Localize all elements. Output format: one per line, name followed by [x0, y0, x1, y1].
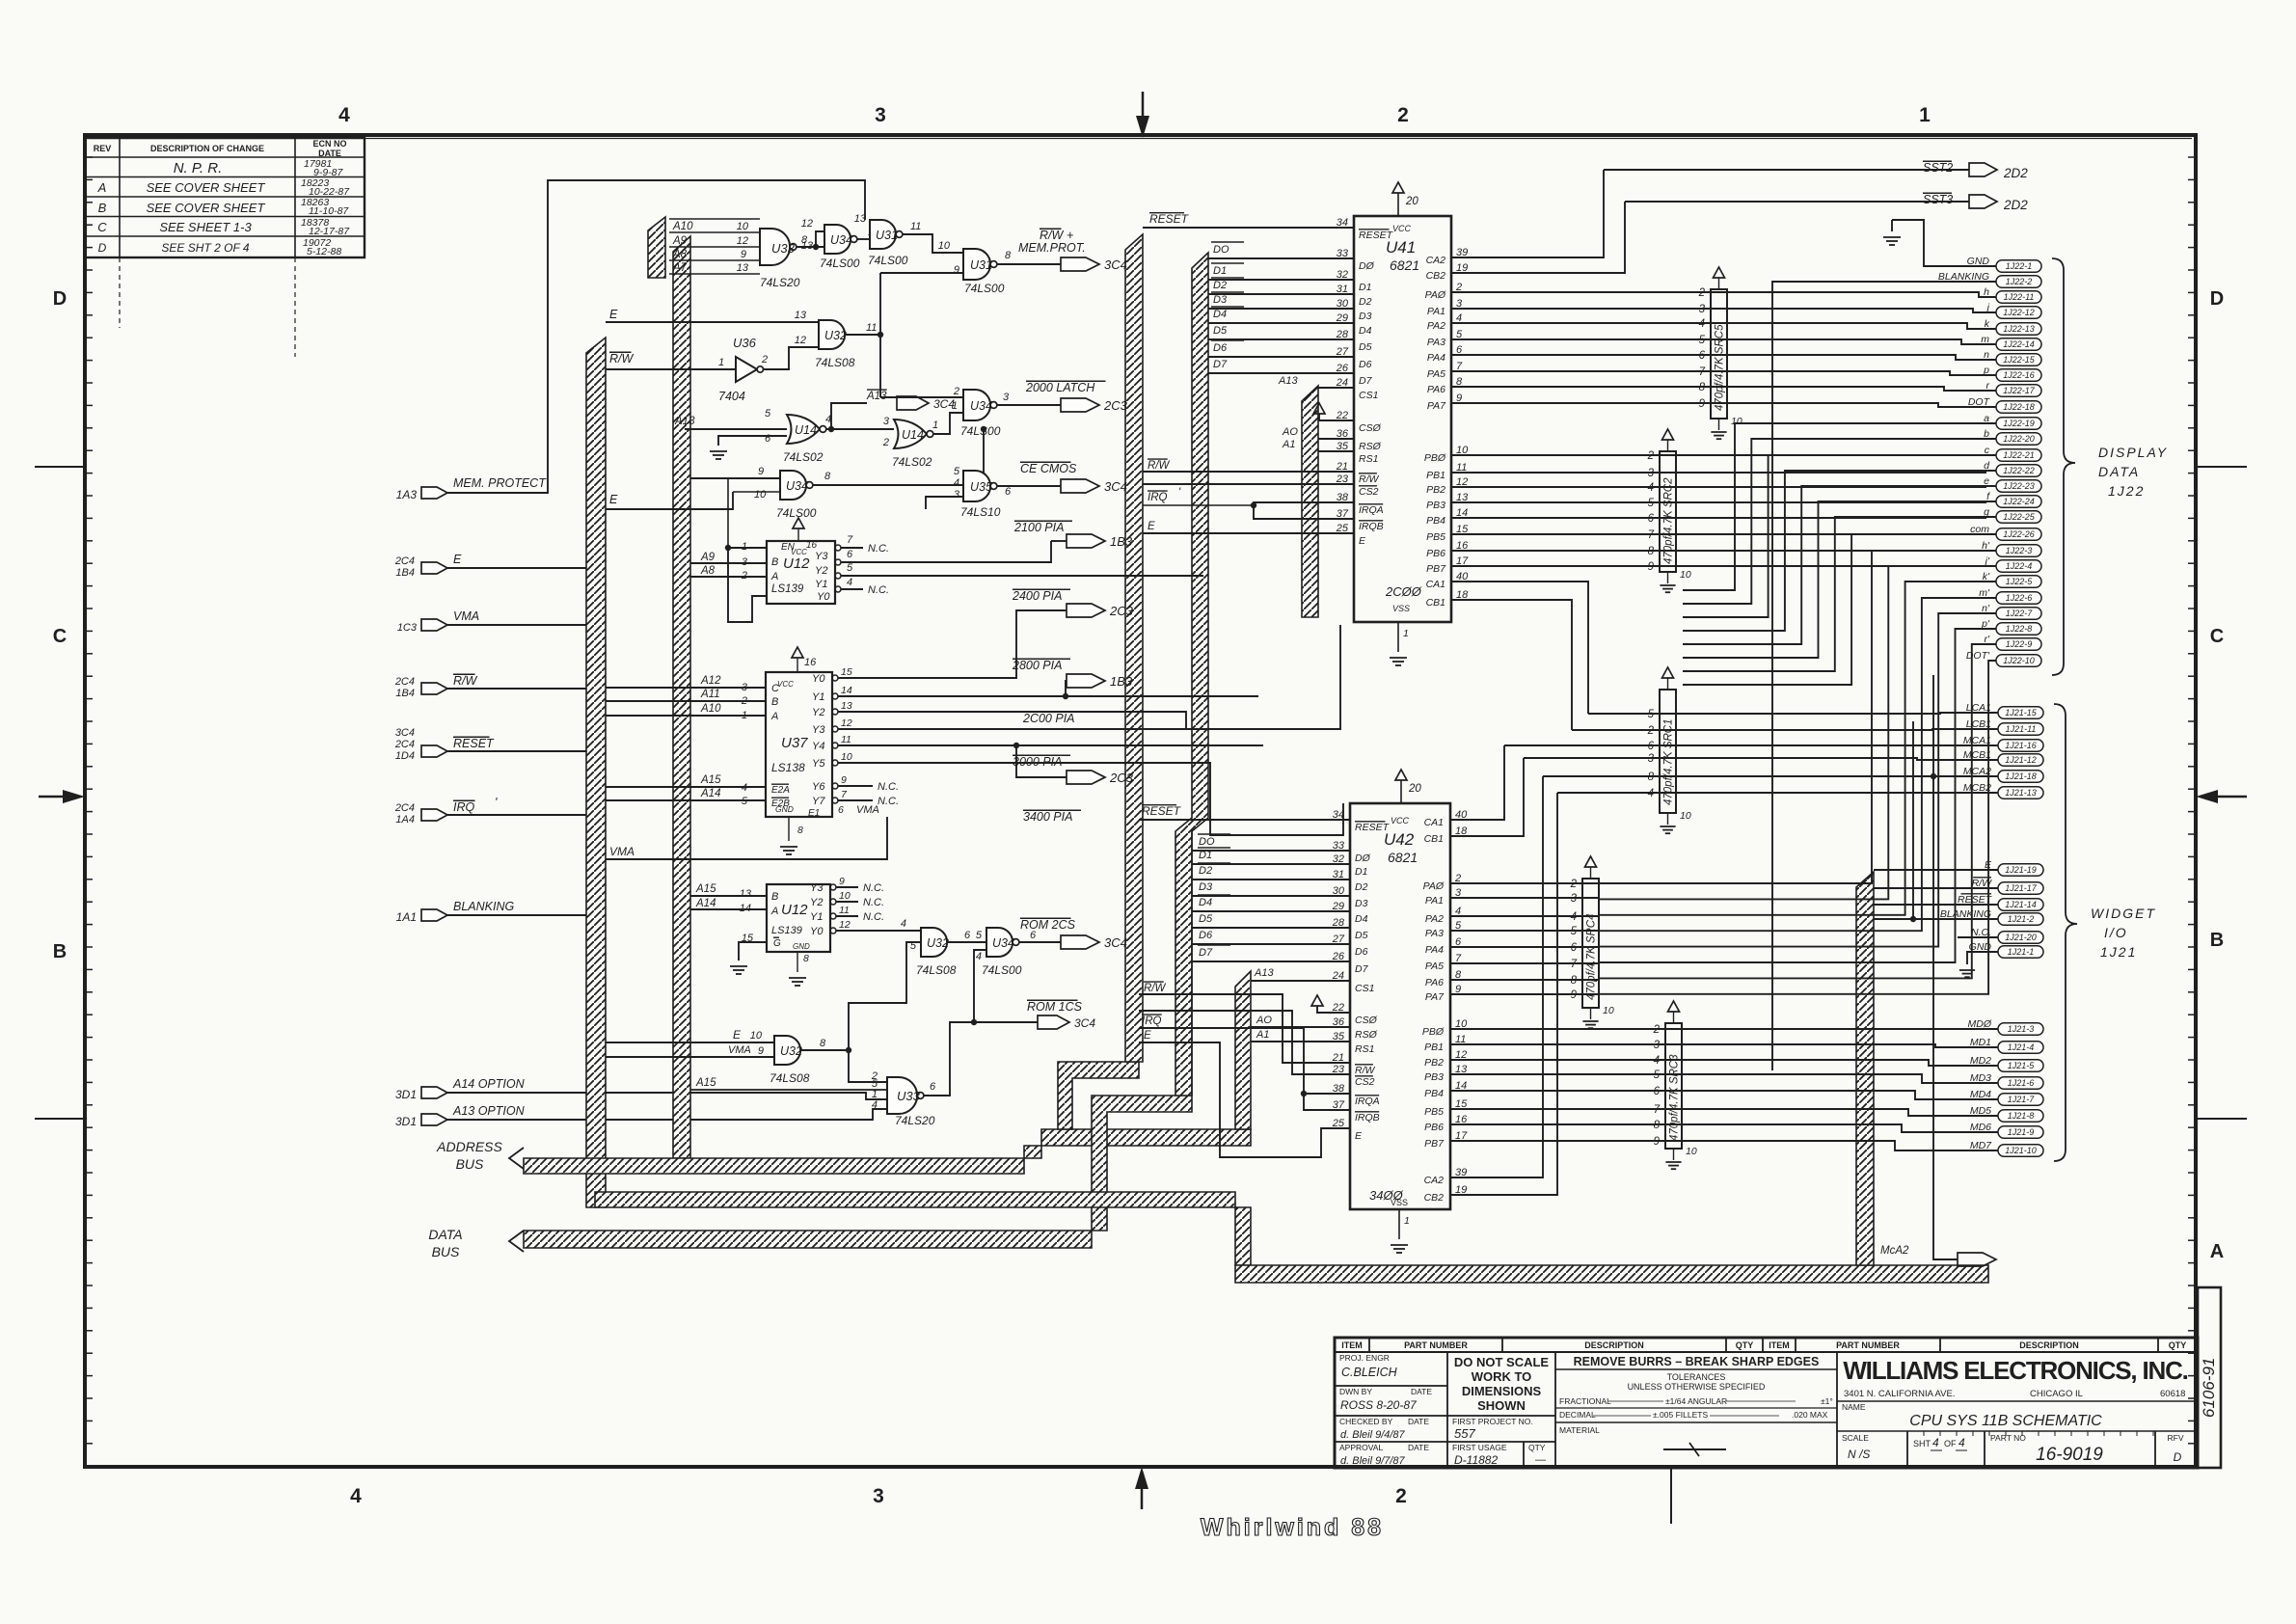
ground U12 lower — [797, 952, 798, 972]
title block do-not-scale cell — [1554, 1352, 1556, 1468]
svg-text:7: 7 — [1648, 529, 1655, 541]
svg-text:1J22-1: 1J22-1 — [2006, 261, 2033, 271]
svg-text:CS2: CS2 — [1355, 1076, 1375, 1088]
svg-text:1J22-6: 1J22-6 — [2006, 593, 2033, 603]
svg-text:U12: U12 — [783, 555, 810, 572]
svg-text:PAØ: PAØ — [1425, 289, 1446, 301]
svg-text:A9: A9 — [672, 235, 688, 247]
title block item row — [1335, 1351, 2198, 1353]
svg-text:DWN BY: DWN BY — [1339, 1387, 1372, 1396]
svg-text:PB3: PB3 — [1426, 500, 1445, 511]
svg-text:RESET: RESET — [453, 737, 495, 750]
svg-text:D2: D2 — [1359, 296, 1372, 308]
svg-text:U33: U33 — [771, 241, 796, 256]
connector pin 1J22-19 a — [1996, 418, 2041, 430]
svg-text:BLANKING: BLANKING — [453, 900, 514, 913]
wire MEM.PROTECT to U31 — [447, 180, 865, 493]
svg-text:A12: A12 — [700, 675, 721, 687]
wire riser to BLANKING junction — [1912, 721, 1914, 919]
U37 Y1 wire 2800 PIA — [838, 695, 1258, 697]
svg-text:9: 9 — [758, 466, 764, 477]
svg-text:LS139: LS139 — [771, 583, 804, 595]
svg-text:PA1: PA1 — [1427, 306, 1445, 317]
svg-text:4: 4 — [1654, 1055, 1660, 1067]
svg-text:6: 6 — [1648, 513, 1655, 525]
svg-text:Y6: Y6 — [812, 781, 825, 793]
svg-text:QTY: QTY — [1528, 1443, 1546, 1452]
svg-text:DØ: DØ — [1355, 853, 1371, 864]
svg-text:1J21-5: 1J21-5 — [2008, 1061, 2036, 1070]
svg-text:1J22-18: 1J22-18 — [2003, 402, 2035, 412]
wires U41 PB0-PB7 through SRC2 crossing staircase — [1451, 454, 1986, 456]
svg-text:10: 10 — [841, 751, 852, 763]
svg-text:2: 2 — [1397, 104, 1409, 126]
wire BLANKING input — [447, 914, 590, 916]
svg-text:D1: D1 — [1213, 265, 1227, 277]
svg-text:5: 5 — [847, 562, 853, 574]
svg-text:3: 3 — [875, 104, 886, 126]
revision table — [85, 138, 365, 257]
staircase wires to segment pins a-com — [1683, 423, 1996, 590]
svg-text:13: 13 — [801, 240, 814, 252]
svg-text:PB3: PB3 — [1424, 1071, 1444, 1083]
wires widget E R/W RESET BLANKING from bus column 4 — [1874, 869, 1998, 871]
svg-text:A10: A10 — [672, 221, 693, 232]
svg-text:VMA: VMA — [728, 1044, 751, 1056]
svg-text:1J22-7: 1J22-7 — [2006, 609, 2034, 618]
svg-text:LS139: LS139 — [771, 925, 802, 936]
ground U41 VSS pin 1 — [1397, 622, 1399, 652]
svg-text:2C4: 2C4 — [394, 739, 415, 750]
svg-text:2C4: 2C4 — [394, 555, 415, 567]
connector pin 1J22-10 DOT' — [1996, 655, 2041, 667]
gate U33 74LS20 — [760, 229, 790, 265]
svg-text:TOLERANCES: TOLERANCES — [1667, 1372, 1726, 1382]
decoder U12 LS139 upper — [767, 541, 835, 604]
connector pin 1J22-7 n' — [1996, 608, 2041, 620]
svg-text:74LS00: 74LS00 — [960, 424, 1001, 438]
resistor network SRC2 470pf/4.7K — [1660, 451, 1676, 572]
svg-text:U35: U35 — [970, 480, 992, 494]
svg-text:D2: D2 — [1199, 865, 1212, 877]
svg-text:D7: D7 — [1213, 359, 1228, 370]
svg-text:14: 14 — [740, 903, 751, 914]
svg-text:8: 8 — [803, 953, 809, 964]
resistor network SRC4 470pf/4.7K — [1582, 879, 1599, 1008]
wire U33b out to ROM1CS — [924, 1022, 974, 1096]
svg-text:A: A — [97, 180, 107, 195]
svg-text:D3: D3 — [1199, 881, 1213, 893]
connector pin 1J22-1 GND — [1996, 260, 2041, 273]
decoder U12 LS139 lower — [767, 884, 830, 952]
svg-text:VCC: VCC — [1391, 816, 1410, 826]
wire U35 out CE CMOS flag — [997, 485, 1061, 487]
svg-text:R/W: R/W — [1040, 229, 1065, 242]
svg-text:Y5: Y5 — [812, 758, 825, 770]
svg-text:470pf/4.7K SRC5: 470pf/4.7K SRC5 — [1715, 324, 1726, 411]
wire U34a to U31a — [857, 238, 870, 240]
connector pin 1J21-9 MD6 — [1998, 1126, 2043, 1139]
svg-text:U33: U33 — [897, 1089, 921, 1103]
svg-text:A13: A13 — [674, 416, 695, 427]
svg-text:E2A: E2A — [771, 785, 790, 796]
svg-text:N.C.: N.C. — [868, 584, 889, 596]
svg-text:20: 20 — [1408, 783, 1421, 795]
svg-text:2100 PIA: 2100 PIA — [1013, 521, 1064, 534]
border zone tick marks left edge — [85, 156, 93, 158]
svg-text:D1: D1 — [1199, 850, 1212, 861]
svg-text:1: 1 — [742, 541, 747, 553]
svg-text:1J22-26: 1J22-26 — [2003, 529, 2035, 539]
svg-text:RESET: RESET — [1142, 804, 1182, 818]
svg-text:3: 3 — [1571, 893, 1578, 905]
connector pin 1J21-2 BLANKING — [1998, 913, 2043, 926]
vcc arrow U41 pin 20 — [1397, 193, 1399, 216]
connector pin 1J22-26 com — [1996, 528, 2041, 541]
svg-text:A8: A8 — [700, 565, 716, 577]
svg-text:N.C.: N.C. — [863, 911, 884, 923]
svg-text:13: 13 — [841, 700, 852, 712]
connector pin 1J21-8 MD5 — [1998, 1110, 2043, 1123]
ground U42 VSS pin 1 — [1398, 1209, 1400, 1239]
output flag 3000 PIA 2C3 — [1016, 745, 1067, 777]
address bus vertical column B — [673, 236, 690, 1158]
svg-text:4: 4 — [847, 577, 852, 588]
junction dot BLANKING — [1910, 916, 1916, 922]
bus stub A10-A7 gate feed — [648, 217, 665, 278]
svg-text:R/W: R/W — [453, 674, 478, 688]
svg-text:8: 8 — [1005, 250, 1012, 261]
svg-text:1B4: 1B4 — [395, 688, 415, 699]
svg-text:13: 13 — [737, 262, 749, 274]
svg-text:9: 9 — [839, 876, 845, 887]
svg-text:Y1: Y1 — [810, 911, 823, 923]
svg-text:1J22-5: 1J22-5 — [2006, 577, 2034, 586]
svg-text:PB5: PB5 — [1426, 531, 1445, 543]
svg-text:DESCRIPTION: DESCRIPTION — [1584, 1340, 1644, 1350]
connector pin 1J21-1 GND — [1998, 946, 2043, 959]
svg-text:RSØ: RSØ — [1359, 441, 1382, 452]
svg-text:Y0: Y0 — [812, 673, 825, 685]
svg-text:CS1: CS1 — [1355, 983, 1374, 994]
svg-text:74LS20: 74LS20 — [895, 1114, 935, 1127]
connector pin 1J22-12 j — [1996, 307, 2041, 319]
svg-text:1J22-23: 1J22-23 — [2003, 481, 2035, 491]
svg-text:C: C — [97, 220, 107, 234]
flag A13bar 3C4 — [831, 403, 867, 429]
svg-text:R/W: R/W — [609, 352, 635, 365]
svg-text:PA4: PA4 — [1427, 352, 1445, 364]
svg-text:N.C.: N.C. — [863, 897, 884, 908]
svg-text:9: 9 — [758, 1045, 764, 1057]
svg-text:R/W: R/W — [1148, 460, 1171, 472]
U37 Y7 NC — [838, 799, 873, 801]
wire U42 CA2 up to SRC1 pin 8 — [1450, 776, 1543, 1177]
svg-text:PA1: PA1 — [1425, 895, 1444, 907]
svg-text:Whirlwind 88: Whirlwind 88 — [1201, 1514, 1384, 1541]
PIA U41 6821 — [1354, 216, 1451, 622]
ground U37 — [788, 817, 790, 841]
svg-text:2CØØ: 2CØØ — [1385, 584, 1422, 599]
svg-text:3: 3 — [1699, 304, 1706, 315]
svg-text:470pf/4.7K SRC4: 470pf/4.7K SRC4 — [1586, 913, 1598, 1000]
svg-text:1: 1 — [718, 357, 724, 368]
svg-text:3C4: 3C4 — [1104, 479, 1127, 494]
svg-text:RS1: RS1 — [1355, 1043, 1374, 1055]
wire U34d out ROM 2CS flag — [1019, 941, 1061, 943]
svg-text:CS2: CS2 — [1359, 486, 1379, 498]
svg-text:D1: D1 — [1359, 282, 1371, 293]
svg-text:1: 1 — [952, 400, 958, 412]
svg-text:A13: A13 — [1278, 375, 1298, 387]
svg-text:APPROVAL: APPROVAL — [1339, 1443, 1383, 1452]
gate U34a 74LS00 — [816, 231, 824, 247]
svg-text:PA7: PA7 — [1427, 400, 1446, 412]
svg-text:1J21-12: 1J21-12 — [2005, 755, 2037, 765]
ground U12 lower G input — [739, 942, 767, 961]
svg-text:U12: U12 — [781, 902, 808, 918]
svg-text:1J21-10: 1J21-10 — [2005, 1146, 2037, 1155]
svg-text:PART NUMBER: PART NUMBER — [1404, 1340, 1468, 1350]
connector pin 1J22-25 g — [1996, 511, 2041, 524]
connector pin 1J22-13 k — [1996, 323, 2041, 336]
svg-text:A13: A13 — [866, 391, 887, 402]
svg-text:2: 2 — [1570, 879, 1578, 890]
svg-text:E: E — [1144, 1030, 1151, 1042]
svg-text:3C4: 3C4 — [1074, 1016, 1095, 1030]
svg-text:Y4: Y4 — [812, 741, 824, 752]
svg-text:12: 12 — [801, 218, 813, 230]
svg-text:Y2: Y2 — [812, 707, 824, 718]
top center fold arrow — [1142, 92, 1145, 123]
svg-text:1J21-4: 1J21-4 — [2008, 1042, 2035, 1052]
svg-text:5: 5 — [976, 930, 983, 941]
svg-text:10: 10 — [1731, 416, 1742, 427]
svg-text:3C4: 3C4 — [1104, 935, 1127, 950]
svg-text:11-10-87: 11-10-87 — [309, 205, 349, 217]
svg-text:R/W: R/W — [1355, 1065, 1376, 1076]
svg-text:8: 8 — [1654, 1120, 1661, 1131]
svg-text:CHICAGO IL: CHICAGO IL — [2030, 1389, 2083, 1399]
svg-text:1J21-16: 1J21-16 — [2005, 741, 2037, 750]
svg-text:MEM.PROT.: MEM.PROT. — [1018, 241, 1086, 255]
svg-text:6: 6 — [847, 549, 853, 560]
svg-text:3: 3 — [1648, 468, 1655, 479]
wire U41 CB1 to SRC1 pin 2 — [1451, 600, 1572, 730]
svg-text:CA1: CA1 — [1426, 579, 1445, 590]
svg-text:PA6: PA6 — [1425, 977, 1444, 988]
wire U32b upper input from U32c — [849, 942, 921, 1050]
svg-text:N /S: N /S — [1848, 1448, 1870, 1461]
svg-text:8: 8 — [824, 471, 831, 482]
svg-text:CSØ: CSØ — [1355, 1015, 1378, 1026]
svg-text:D6: D6 — [1355, 946, 1368, 958]
svg-text:6821: 6821 — [1390, 257, 1419, 273]
svg-text:U14: U14 — [902, 428, 924, 442]
svg-text:DATE: DATE — [1408, 1443, 1429, 1452]
wire A13 OPTION input — [447, 1109, 887, 1120]
wire U42 CB1 up to SRC1 pin 3 — [1450, 758, 1524, 836]
vcc arrow U41 CS0 — [1319, 414, 1354, 420]
svg-text:N.C.: N.C. — [878, 781, 899, 793]
U37 Y6 NC — [838, 785, 873, 787]
svg-text:D3: D3 — [1359, 311, 1372, 322]
svg-text:5: 5 — [742, 796, 748, 807]
wire R/W input — [447, 688, 590, 690]
svg-text:PA6: PA6 — [1427, 384, 1445, 395]
svg-text:D: D — [53, 288, 67, 310]
connector pin 1J22-24 f — [1996, 496, 2041, 508]
svg-text:PROJ. ENGR: PROJ. ENGR — [1339, 1353, 1390, 1363]
svg-text:Y0: Y0 — [817, 591, 830, 603]
svg-text:D7: D7 — [1355, 963, 1369, 975]
svg-text:U34: U34 — [970, 399, 992, 413]
svg-text:5: 5 — [1571, 926, 1578, 937]
svg-text:1J21-9: 1J21-9 — [2008, 1127, 2035, 1137]
svg-text:U32: U32 — [927, 936, 949, 950]
svg-text:PB2: PB2 — [1426, 484, 1445, 496]
svg-text:2: 2 — [882, 437, 889, 448]
svg-text:11: 11 — [866, 322, 877, 334]
svg-text:A9: A9 — [700, 552, 716, 563]
svg-text:CA2: CA2 — [1426, 255, 1446, 266]
svg-text:E: E — [453, 553, 462, 566]
U37 Y3 wire — [838, 625, 1340, 729]
svg-text:E: E — [1148, 521, 1155, 532]
svg-text:CB2: CB2 — [1424, 1192, 1445, 1204]
svg-text:6: 6 — [1571, 942, 1578, 954]
title block left cells — [1446, 1352, 1448, 1468]
svg-text:1: 1 — [1404, 1215, 1410, 1227]
svg-text:3: 3 — [1003, 392, 1010, 403]
wire SST3 — [1625, 201, 1969, 203]
svg-text:Y7: Y7 — [812, 796, 825, 807]
svg-text:A13 OPTION: A13 OPTION — [452, 1104, 526, 1118]
svg-text:R/W: R/W — [1359, 474, 1380, 485]
svg-text:2: 2 — [761, 354, 768, 365]
svg-text:7404: 7404 — [718, 390, 745, 403]
svg-text:3C4: 3C4 — [395, 727, 415, 739]
svg-text:1J22-3: 1J22-3 — [2006, 546, 2033, 555]
svg-text:D-11882: D-11882 — [1454, 1453, 1498, 1467]
svg-text:2: 2 — [1395, 1485, 1407, 1507]
svg-text:4: 4 — [954, 477, 959, 489]
svg-text:DOT': DOT' — [1966, 650, 1990, 662]
svg-text:GND: GND — [793, 942, 810, 951]
svg-text:FIRST PROJECT NO.: FIRST PROJECT NO. — [1452, 1417, 1533, 1426]
svg-text:E: E — [1359, 535, 1366, 547]
connector pin 1J22-16 p — [1996, 369, 2041, 382]
svg-text:2C3: 2C3 — [1103, 398, 1128, 413]
svg-text:D: D — [2174, 1450, 2182, 1464]
svg-text:4: 4 — [976, 951, 982, 962]
svg-text:3C4: 3C4 — [1104, 257, 1127, 272]
svg-text:470pf/4.7K SRC3: 470pf/4.7K SRC3 — [1669, 1054, 1681, 1141]
svg-text:1J21-20: 1J21-20 — [2005, 933, 2037, 942]
svg-text:D6: D6 — [1359, 359, 1372, 370]
svg-text:FRACTIONAL: FRACTIONAL — [1559, 1396, 1611, 1406]
svg-text:6: 6 — [1005, 486, 1012, 498]
svg-text:D7: D7 — [1199, 947, 1213, 959]
svg-text:4: 4 — [742, 782, 747, 794]
svg-text:VMA: VMA — [609, 845, 635, 858]
svg-text:10: 10 — [1680, 569, 1691, 581]
U37 Y0 wire to 2400 — [838, 610, 1067, 678]
svg-text:D7: D7 — [1359, 375, 1373, 387]
svg-text:1J21-18: 1J21-18 — [2005, 771, 2037, 781]
svg-text:2C3: 2C3 — [1109, 604, 1134, 618]
svg-text:6: 6 — [1648, 741, 1655, 752]
svg-text:D: D — [2210, 288, 2224, 310]
svg-text:—: — — [1535, 1454, 1546, 1466]
wire U31a to U31b — [903, 234, 963, 253]
svg-text:RS1: RS1 — [1359, 453, 1378, 465]
svg-text:DESCRIPTION OF CHANGE: DESCRIPTION OF CHANGE — [150, 144, 264, 153]
svg-text:DATA: DATA — [2098, 464, 2140, 479]
svg-text:CPU SYS 11B SCHEMATIC: CPU SYS 11B SCHEMATIC — [1909, 1413, 2102, 1429]
PIA U42 6821 — [1350, 803, 1450, 1209]
svg-text:BUS: BUS — [456, 1156, 484, 1172]
svg-text:PB7: PB7 — [1426, 563, 1446, 575]
svg-text:60618: 60618 — [2160, 1389, 2185, 1399]
svg-text:9: 9 — [954, 264, 959, 276]
svg-text:E: E — [733, 1028, 742, 1042]
svg-text:B: B — [771, 696, 778, 708]
svg-text:NAME: NAME — [1842, 1402, 1866, 1412]
svg-text:CB2: CB2 — [1426, 270, 1446, 282]
connector pin 1J21-13 MCB2 — [1998, 787, 2043, 799]
svg-text:A15: A15 — [700, 774, 721, 786]
svg-text:1J21-11: 1J21-11 — [2006, 724, 2037, 734]
svg-text:6: 6 — [1699, 350, 1706, 362]
bus stub column A13 U42 — [1235, 971, 1251, 1129]
svg-text:QTY: QTY — [1736, 1340, 1754, 1350]
junction vertical U32a output net — [879, 273, 881, 397]
connector pin 1J22-21 c — [1996, 449, 2041, 462]
svg-text:Y2: Y2 — [815, 565, 827, 577]
U37 Y5 wire 3400 PIA — [838, 763, 1343, 835]
connector pin 1J21-7 MD4 — [1998, 1094, 2043, 1106]
svg-text:1J21-1: 1J21-1 — [2008, 947, 2035, 957]
svg-text:ROM 1CS: ROM 1CS — [1027, 1000, 1083, 1014]
wire into U34d lower input from ROM1CS net — [974, 950, 986, 1022]
connector pin 1J21-10 MD7 — [1998, 1145, 2043, 1157]
zone boundary marks — [2196, 466, 2247, 468]
svg-text:PB1: PB1 — [1424, 1042, 1444, 1053]
wire U42 CA1 up to SRC1 pin 6 — [1450, 745, 1504, 820]
wire U36 out to U32a — [764, 347, 820, 369]
wire U14a out junction — [826, 428, 894, 430]
svg-text:N. P. R.: N. P. R. — [174, 160, 223, 176]
svg-text:SST2: SST2 — [1923, 161, 1953, 175]
svg-text:PB5: PB5 — [1424, 1106, 1444, 1118]
svg-text:3: 3 — [954, 489, 960, 501]
svg-text:2C4: 2C4 — [394, 676, 415, 688]
wires SRC1 to widget control pins — [1588, 713, 1998, 714]
svg-text:9: 9 — [1571, 989, 1578, 1001]
svg-text:A: A — [770, 571, 778, 582]
svg-text:ROM 2CS: ROM 2CS — [1020, 918, 1076, 932]
svg-text:DESCRIPTION: DESCRIPTION — [2019, 1340, 2079, 1350]
svg-text:1J22-2: 1J22-2 — [2006, 277, 2033, 286]
svg-text:ADDRESS: ADDRESS — [436, 1139, 502, 1154]
svg-text:3D1: 3D1 — [395, 1088, 417, 1101]
wire U31b output R/W+MEM.PROT — [997, 263, 1061, 265]
svg-text:13: 13 — [795, 310, 807, 321]
connector pin 1J21-5 MD2 — [1998, 1060, 2043, 1072]
svg-text:9: 9 — [1654, 1136, 1661, 1148]
svg-text:1: 1 — [1919, 104, 1931, 126]
